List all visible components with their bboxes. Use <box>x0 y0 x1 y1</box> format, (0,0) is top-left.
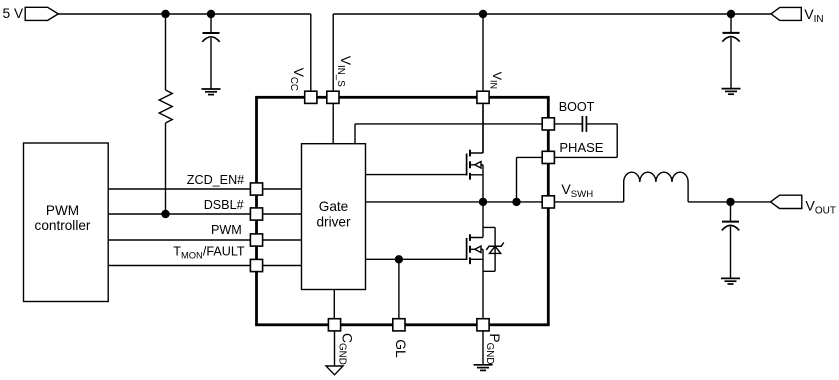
svg-text:PGND: PGND <box>484 333 503 364</box>
svg-text:driver: driver <box>317 214 351 229</box>
svg-text:TMON/FAULT: TMON/FAULT <box>173 245 245 261</box>
svg-text:CGND: CGND <box>336 333 355 365</box>
svg-text:PWM: PWM <box>211 223 242 237</box>
svg-text:VIN: VIN <box>489 72 505 89</box>
svg-text:VIN_S: VIN_S <box>335 56 354 88</box>
svg-text:DSBL#: DSBL# <box>204 198 244 212</box>
svg-text:controller: controller <box>35 218 91 233</box>
svg-text:Gate: Gate <box>319 199 348 214</box>
svg-text:ZCD_EN#: ZCD_EN# <box>187 173 244 187</box>
svg-text:PHASE: PHASE <box>559 140 603 155</box>
svg-text:GL: GL <box>393 339 409 358</box>
svg-text:BOOT: BOOT <box>559 100 595 114</box>
svg-text:VIN: VIN <box>804 7 823 25</box>
svg-text:PWM: PWM <box>46 203 79 218</box>
svg-text:VCC: VCC <box>288 68 307 91</box>
svg-text:VSWH: VSWH <box>561 181 593 200</box>
svg-text:5 V: 5 V <box>3 6 25 21</box>
svg-text:VOUT: VOUT <box>805 199 836 217</box>
